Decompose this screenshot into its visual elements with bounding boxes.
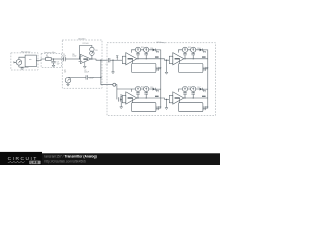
svg-text:C4: C4 — [106, 64, 108, 66]
node — [193, 97, 194, 98]
op-amp OA5 — [173, 92, 184, 104]
capacitor C5 (series, bottom row) — [118, 97, 120, 101]
wire — [120, 98, 122, 100]
input loop — [122, 56, 126, 63]
wire — [28, 59, 45, 67]
ground — [165, 108, 168, 110]
current source I9 (feedback) — [90, 47, 94, 51]
capacitor under I6 — [144, 92, 148, 98]
wire (right drop) — [179, 59, 207, 69]
wire cell1 to cell2 — [161, 59, 170, 60]
current source I1 — [135, 47, 140, 52]
svg-text:LED Array: LED Array — [156, 41, 165, 44]
feedback loop rectangle — [132, 64, 156, 73]
current source I3 — [182, 47, 187, 52]
wire (right drop) — [179, 98, 207, 108]
wire — [65, 58, 80, 60]
input loop — [122, 95, 126, 102]
node — [100, 60, 101, 61]
logo LAB badge — [29, 161, 40, 165]
op-amp OA2 — [126, 53, 137, 65]
wire cell3 to cell4 — [161, 98, 170, 99]
label — [204, 67, 205, 71]
node — [53, 58, 54, 59]
ground — [19, 67, 28, 70]
annotation box Amplifier — [62, 40, 102, 88]
wire (bus) — [137, 89, 161, 98]
LED driver cell 1 (top-left) — [122, 47, 161, 72]
net flag 5V bottom — [120, 95, 122, 100]
svg-text:1uF: 1uF — [63, 55, 66, 57]
ground (op-amp power) — [83, 62, 86, 69]
annotation box LED Array — [107, 43, 216, 116]
wire — [110, 59, 122, 61]
svg-text:1uF: 1uF — [57, 63, 60, 65]
svg-text:mic: mic — [29, 59, 32, 61]
svg-text:LAB: LAB — [31, 161, 39, 165]
node — [193, 58, 194, 59]
capacitor under I3 — [183, 52, 187, 58]
capacitor under I8 — [191, 92, 195, 98]
capacitor under I4 — [191, 52, 195, 58]
node — [184, 97, 185, 98]
wire (minus input) — [79, 57, 81, 62]
capacitor C3 (shunt) — [51, 59, 55, 65]
wire — [14, 57, 25, 67]
feedback loop rectangle — [179, 64, 203, 73]
feedback loop rectangle — [179, 103, 203, 112]
node — [100, 77, 101, 78]
capacitor C1 (series) — [64, 57, 65, 61]
wire (V+ rail) — [131, 50, 152, 53]
input loop — [169, 95, 173, 102]
node — [112, 60, 113, 61]
microphone model box MIC1 — [25, 55, 36, 67]
voltage source V1 — [65, 77, 71, 83]
wire (bus) — [184, 89, 208, 98]
node — [79, 58, 80, 59]
net flag 5V — [116, 56, 118, 61]
svg-text:R3: R3 — [95, 50, 97, 52]
wire (bus) — [184, 50, 208, 59]
port node — [113, 83, 116, 86]
svg-text:lancram157 / Transmitter (Anal: lancram157 / Transmitter (Analog) — [45, 155, 97, 159]
capacitor under I7 — [183, 92, 187, 98]
wire (feedback loop) — [80, 45, 92, 59]
current source I5 — [135, 86, 140, 91]
current source I4 — [191, 47, 196, 52]
wire — [166, 60, 168, 72]
supply rail wire — [68, 76, 101, 78]
ground — [165, 72, 168, 74]
node — [137, 58, 138, 59]
wire — [120, 99, 122, 106]
footer bar — [0, 153, 220, 165]
LED D2 — [200, 49, 203, 52]
wire (V+ rail) — [178, 89, 199, 92]
ground — [120, 107, 123, 109]
voltage source V2 (mic capsule) — [16, 60, 22, 66]
label — [157, 106, 158, 110]
wire — [112, 60, 114, 72]
ground — [52, 65, 55, 67]
capacitor under I5 — [136, 92, 140, 98]
node — [184, 58, 185, 59]
svg-text:http://circuitlab.com/c/8k45b6: http://circuitlab.com/c/8k45b6 — [45, 159, 87, 163]
wire (feed to bottom row) — [101, 60, 131, 99]
wire — [51, 58, 63, 60]
svg-text:100uF: 100uF — [89, 77, 94, 79]
wire (right drop) — [132, 59, 160, 69]
logo waveform — [8, 161, 25, 162]
node — [137, 97, 138, 98]
node — [146, 97, 147, 98]
wire (output) — [91, 59, 108, 60]
wire (column drop right) — [207, 69, 209, 89]
capacitor under I1 — [136, 52, 140, 58]
ground — [112, 72, 115, 74]
resistor R5 — [46, 58, 52, 61]
capacitor under I2 — [144, 52, 148, 58]
wire — [67, 83, 69, 84]
current source I7 — [182, 86, 187, 91]
label — [157, 67, 158, 71]
LED driver cell 3 (bottom-left) — [122, 86, 161, 111]
annotation box Microphone — [11, 53, 38, 70]
node — [166, 60, 167, 61]
current source I6 — [144, 86, 149, 91]
wire (V+ rail) — [178, 50, 199, 53]
LED driver cell 2 (top-right) — [169, 47, 208, 72]
label — [204, 106, 205, 110]
current source I8 — [191, 86, 196, 91]
svg-text:Low-pass filter: Low-pass filter — [44, 51, 56, 54]
LED D4 — [200, 88, 203, 91]
annotation box Low-pass filter — [41, 53, 61, 67]
svg-text:R2 1kΩ: R2 1kΩ — [83, 43, 89, 45]
op-amp OA3 — [173, 53, 184, 65]
input loop — [169, 56, 173, 63]
node — [146, 58, 147, 59]
capacitor C4 (series, top row) — [108, 58, 110, 62]
svg-text:Microphone: Microphone — [21, 52, 30, 54]
node — [91, 58, 92, 59]
feedback loop rectangle — [132, 103, 156, 112]
ground — [67, 84, 70, 86]
wire (V+ rail) — [131, 89, 152, 92]
wire (right drop) — [132, 98, 160, 108]
wire — [166, 99, 168, 107]
capacitor C2 — [86, 75, 88, 79]
LED D3 — [153, 88, 156, 91]
current source I2 — [144, 47, 149, 52]
node — [166, 99, 167, 100]
LED driver cell 4 (bottom-right) — [169, 86, 208, 111]
wire (column drop left) — [160, 69, 162, 89]
op-amp OA1 — [80, 54, 91, 63]
op-amp OA4 — [126, 92, 137, 104]
wire (bus) — [137, 50, 161, 59]
svg-text:100uF: 100uF — [84, 72, 89, 74]
LED D1 — [153, 49, 156, 52]
svg-text:Amplifier: Amplifier — [78, 38, 86, 41]
